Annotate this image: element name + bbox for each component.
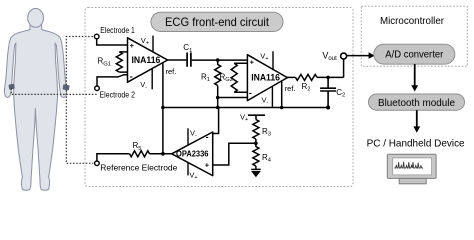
wire C1 to U2 + input [192, 59, 248, 61]
U2 V- pin [271, 86, 273, 108]
svg-text:+: + [205, 161, 210, 170]
ECG waveform on screen [394, 162, 423, 168]
svg-text:PC / Handheld Device: PC / Handheld Device [367, 138, 465, 150]
ECG front-end circuit title pill [151, 12, 283, 31]
resistor RG2 stubs [234, 63, 247, 92]
wire R1 to U2 - input [218, 97, 248, 99]
resistor R4 [253, 143, 259, 169]
electrode 1 terminal [94, 34, 99, 39]
svg-text:A/D converter: A/D converter [385, 50, 444, 61]
A/D converter pill [374, 44, 455, 64]
U1 ref pin line down to ref rail and to U3 output node [162, 63, 164, 154]
resistor R5 [130, 151, 150, 157]
capacitor C2 [320, 77, 336, 107]
wire electrode1 to U1 + input [97, 39, 128, 45]
resistor R1 [215, 60, 221, 107]
U1 V+ pin [152, 36, 154, 53]
dashed lead wire: left wrist to Electrode 2 [11, 89, 96, 95]
wire reference electrode to R5 [97, 154, 130, 161]
electrode 2 terminal [95, 86, 100, 91]
op-amp U1 INA116 triangle [128, 38, 168, 82]
resistor RG2 [231, 63, 237, 92]
PC monitor icon [387, 154, 436, 184]
svg-text:Microcontroller: Microcontroller [380, 16, 445, 27]
wire R5 to U3 output [150, 153, 173, 155]
U2 V+ pin [272, 51, 274, 70]
U2 ref pin line [281, 81, 283, 108]
svg-text:ref.: ref. [285, 84, 296, 93]
svg-text:-: - [249, 88, 252, 98]
svg-text:Electrode 1: Electrode 1 [100, 26, 135, 35]
svg-text:ECG front-end circuit: ECG front-end circuit [165, 15, 270, 29]
junction dots [161, 58, 330, 155]
svg-text:ref.: ref. [166, 67, 177, 76]
arrow A/D to Bluetooth [414, 64, 416, 85]
dashed lead wire: right wrist to Reference Electrode [66, 90, 93, 163]
svg-text:OPA2336: OPA2336 [176, 150, 209, 159]
svg-text:INA116: INA116 [251, 73, 280, 83]
svg-text:+: + [130, 41, 135, 50]
resistor R2 [296, 74, 318, 80]
op-amp U2 INA116 triangle [247, 55, 287, 101]
op-amp U3 OPA2336 triangle (points left) [172, 132, 213, 176]
svg-text:INA116: INA116 [132, 55, 161, 65]
Vout terminal [341, 53, 347, 59]
left wrist electrode band [8, 84, 14, 90]
Bluetooth module pill [369, 94, 465, 110]
svg-text:+: + [250, 58, 255, 67]
svg-text:Electrode 2: Electrode 2 [100, 90, 136, 99]
capacitor C1 [187, 53, 191, 67]
Microcontroller dashed box [361, 6, 467, 66]
resistor RG1 stubs [119, 52, 127, 72]
svg-text:Reference Electrode: Reference Electrode [100, 162, 177, 172]
OPA2336 + input wire to R3/R4 midpoint [213, 143, 256, 165]
OPA2336 feedback wire (- input to ref rail) [213, 108, 219, 134]
svg-text:-: - [130, 71, 133, 81]
wire electrode2 to U1 - input [97, 75, 128, 86]
resistor R3 [253, 120, 259, 144]
dashed lead wire: right wrist to Electrode 1 [66, 37, 93, 86]
resistor RG1 [116, 52, 122, 72]
ECG front-end circuit dashed box [85, 8, 353, 187]
ground symbol below R4 [251, 169, 261, 176]
head [28, 9, 44, 28]
U1 V- pin [151, 68, 153, 89]
wire R2 to output node [317, 76, 344, 78]
ref rail [163, 107, 328, 109]
human body figure [4, 9, 66, 191]
V+ T-bar supply for R3 [248, 115, 265, 119]
wire U2 output to R2 [286, 76, 296, 78]
U3 V+ pin [187, 162, 189, 175]
reference electrode terminal [95, 161, 100, 166]
U3 V- pin [187, 128, 189, 145]
arrow Vout to A/D converter [369, 52, 375, 59]
wire Vout to A/D arrow [347, 55, 369, 57]
monitor base [399, 178, 426, 183]
svg-text:Bluetooth module: Bluetooth module [378, 98, 455, 109]
wire U1 output to C1 [167, 59, 187, 61]
arrow Bluetooth to PC [416, 110, 418, 127]
svg-text:-: - [206, 132, 209, 142]
right wrist electrode band [62, 84, 69, 90]
Vout riser wire [343, 60, 345, 78]
